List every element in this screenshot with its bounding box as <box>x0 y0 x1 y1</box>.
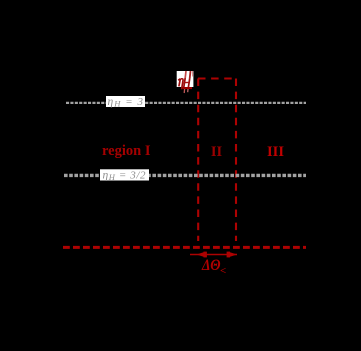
node label eta_H = 3 <box>106 96 145 109</box>
svg-text:II: II <box>211 144 223 160</box>
H crossbar <box>184 81 190 83</box>
svg-text:ηH = 3: ηH = 3 <box>108 96 144 109</box>
H bottom serif bar <box>183 87 192 89</box>
svg-text:III: III <box>267 144 284 160</box>
label Delta Theta_< <box>201 257 226 277</box>
red dashed band: top edge <box>198 77 236 79</box>
H left stem <box>184 71 187 78</box>
red dashed band: left edge <box>197 79 199 242</box>
arrow: double-headed Delta-Theta interval <box>190 252 237 258</box>
node label eta_H = 3/2 <box>100 169 149 182</box>
wire: gray dashed line eta_H = 3/2 (thicker) <box>64 174 306 177</box>
svg-text:ηH = 3/2: ηH = 3/2 <box>103 169 147 182</box>
wire: red dashed bottom line <box>63 246 306 249</box>
svg-text:ΔΘ: ΔΘ <box>201 257 220 274</box>
H right stem <box>189 71 192 79</box>
eta glyph <box>178 79 180 81</box>
wire: gray dashed line eta_H = 3 <box>66 102 306 104</box>
faint descenders below box <box>183 89 185 93</box>
label eta_H (white box, clipped red glyphs) <box>177 71 194 93</box>
red dashed band: right edge <box>235 79 237 242</box>
svg-text:region I: region I <box>102 143 151 159</box>
faint third stem <box>192 71 193 77</box>
svg-text:<: < <box>220 265 226 277</box>
